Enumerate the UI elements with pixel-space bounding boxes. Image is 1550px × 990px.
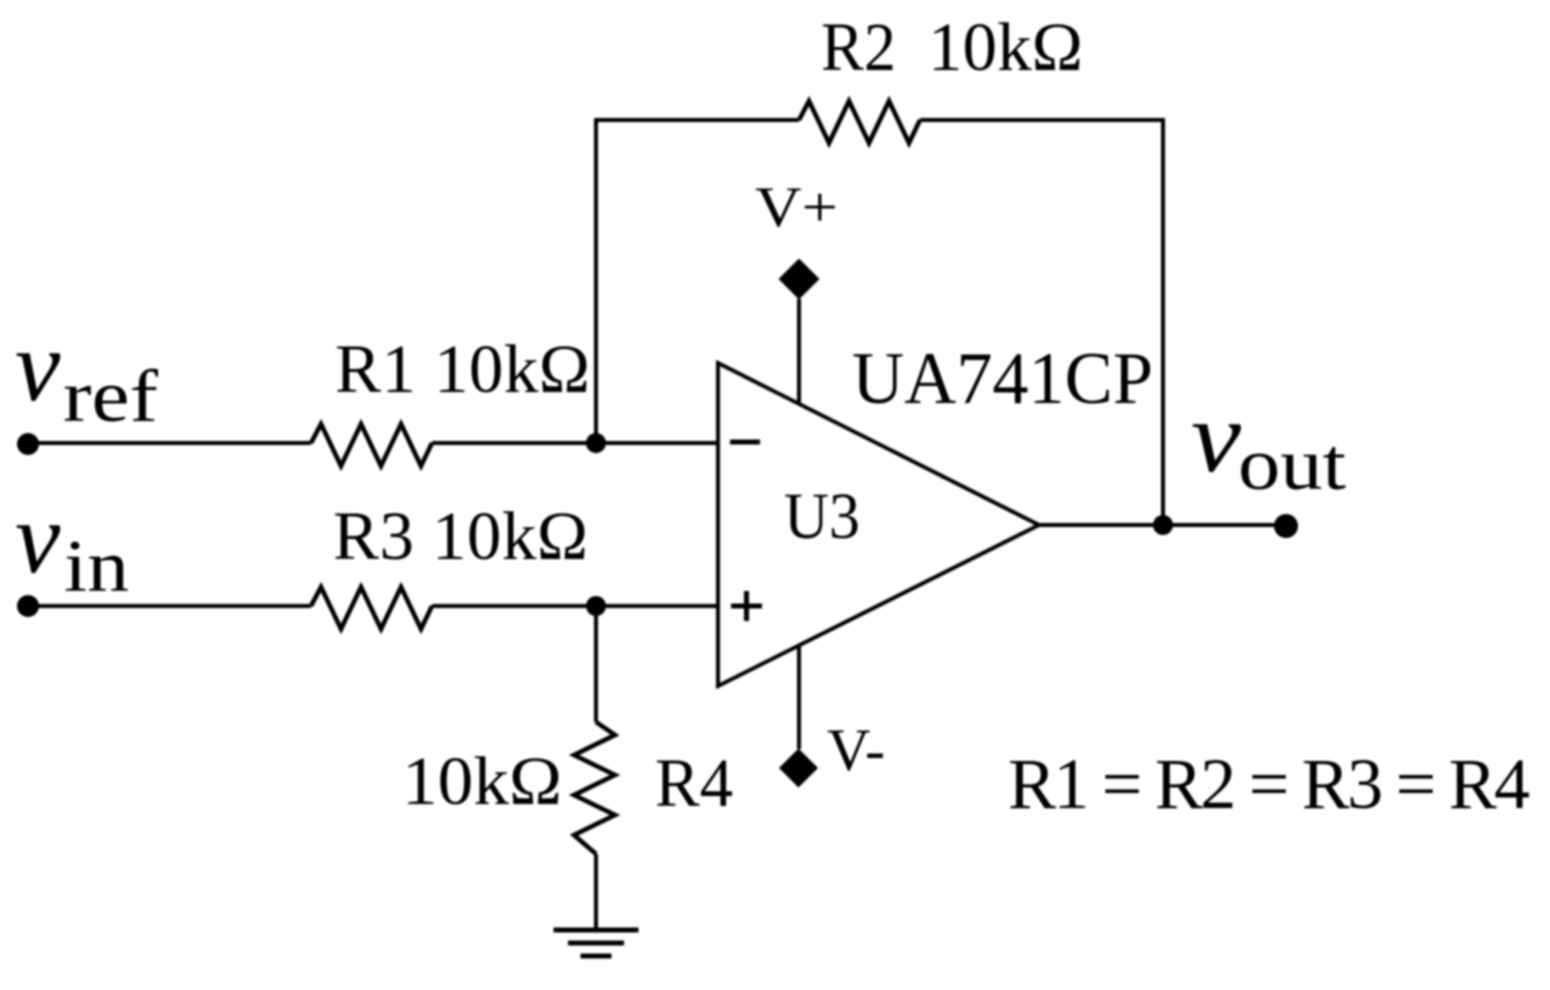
resistor R3 bbox=[311, 587, 432, 629]
svg-text:R1 = R2 = R3 = R4: R1 = R2 = R3 = R4 bbox=[1008, 744, 1530, 824]
junction non-inverting node bbox=[586, 596, 606, 616]
svg-text:v: v bbox=[15, 482, 61, 595]
svg-text:R2: R2 bbox=[821, 9, 896, 85]
wire feedback left vertical from inverting node up to top rail bbox=[596, 120, 799, 443]
svg-text:V-: V- bbox=[827, 717, 885, 783]
svg-text:10kΩ: 10kΩ bbox=[928, 9, 1083, 85]
node vout terminal bbox=[1274, 514, 1298, 538]
wire R3 to non-inverting input bbox=[432, 604, 718, 608]
svg-text:in: in bbox=[64, 526, 129, 608]
resistor R4 bbox=[574, 722, 615, 854]
wire non-inverting node down to R4 bbox=[594, 606, 598, 722]
resistor R2 bbox=[799, 101, 920, 143]
svg-text:ref: ref bbox=[63, 356, 158, 438]
svg-text:out: out bbox=[1238, 424, 1346, 506]
svg-text:v: v bbox=[15, 310, 61, 423]
wire R1 to inverting input bbox=[432, 441, 718, 445]
wire vref terminal to R1 bbox=[28, 441, 311, 445]
wire op-amp output to vout terminal bbox=[1039, 523, 1286, 527]
svg-text:R4: R4 bbox=[655, 745, 733, 821]
power V+ diamond bbox=[779, 259, 820, 300]
junction inverting node bbox=[586, 433, 606, 453]
node vref input terminal bbox=[17, 433, 39, 455]
op-amp minus input symbol bbox=[730, 440, 760, 445]
wire vin terminal to R3 bbox=[28, 604, 311, 608]
node vin input terminal bbox=[17, 595, 39, 617]
svg-text:10kΩ: 10kΩ bbox=[402, 743, 562, 819]
svg-text:R1 10kΩ: R1 10kΩ bbox=[335, 331, 590, 407]
resistor R1 bbox=[311, 424, 432, 466]
wire R4 to ground bbox=[594, 854, 598, 930]
svg-text:V+: V+ bbox=[755, 176, 838, 239]
junction output node bbox=[1153, 515, 1173, 535]
wire V+ diamond to op-amp top edge bbox=[797, 299, 801, 404]
wire op-amp bottom edge to V- diamond bbox=[797, 647, 801, 749]
ground bbox=[554, 930, 639, 956]
svg-text:U3: U3 bbox=[784, 480, 860, 553]
op-amp plus input symbol bbox=[731, 591, 762, 621]
wire feedback right: top rail to output node bbox=[920, 120, 1163, 525]
svg-text:UA741CP: UA741CP bbox=[852, 338, 1153, 420]
op-amp U3 triangle bbox=[718, 363, 1039, 686]
power V- diamond bbox=[779, 749, 818, 788]
svg-text:v: v bbox=[1191, 381, 1242, 494]
svg-text:R3 10kΩ: R3 10kΩ bbox=[333, 498, 588, 574]
